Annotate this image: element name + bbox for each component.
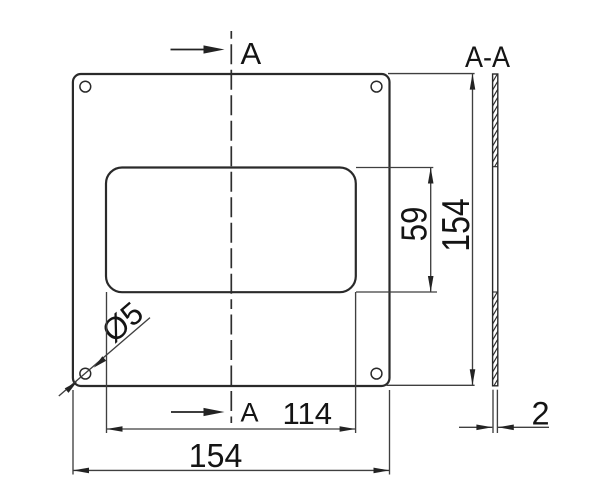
svg-text:A-A: A-A: [465, 41, 510, 74]
svg-text:59: 59: [394, 207, 435, 242]
svg-text:A: A: [241, 398, 259, 428]
svg-text:114: 114: [283, 397, 333, 431]
svg-text:A: A: [241, 36, 262, 71]
svg-text:154: 154: [189, 438, 243, 475]
svg-text:2: 2: [532, 395, 550, 431]
svg-text:Ø5: Ø5: [95, 295, 150, 350]
svg-text:154: 154: [435, 198, 478, 252]
